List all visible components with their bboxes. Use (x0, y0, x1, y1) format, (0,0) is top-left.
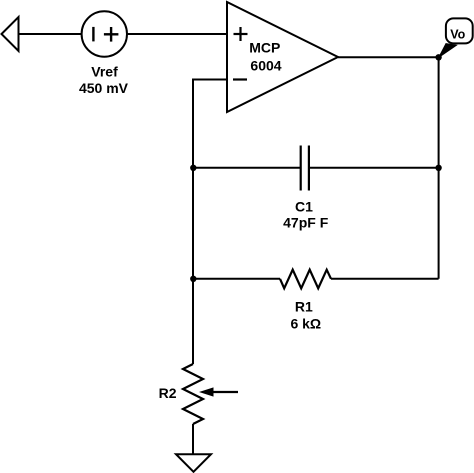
svg-text:MCP: MCP (249, 40, 280, 56)
minus input marker (233, 78, 247, 80)
input port arrow (2, 17, 19, 51)
resistor R1 zigzag (280, 270, 331, 289)
wire capacitor row left (193, 167, 300, 169)
right rail wire (438, 57, 440, 278)
potentiometer R2 zigzag (183, 364, 203, 424)
svg-text:R2: R2 (159, 385, 177, 401)
wire R1 row right (331, 278, 439, 280)
node Vo flag (439, 44, 457, 58)
plus input marker (234, 33, 248, 35)
junction dot output node (435, 54, 441, 60)
wire op-amp output (338, 56, 439, 58)
R2 wiper arrow (212, 391, 238, 393)
svg-text:6004: 6004 (250, 57, 281, 73)
svg-text:C1: C1 (295, 199, 313, 215)
junction dot left R1 (190, 276, 196, 282)
wire R1 row left (193, 278, 280, 280)
ground (176, 454, 211, 472)
junction dot right cap (435, 165, 441, 171)
svg-text:Vref: Vref (91, 64, 118, 80)
voltage source Vref (82, 11, 127, 56)
plus terminal (104, 33, 119, 35)
minus terminal bar (92, 27, 94, 42)
junction dot left cap (190, 165, 196, 171)
svg-text:47pF F: 47pF F (283, 214, 329, 230)
wire - input to left rail (193, 80, 227, 365)
wire Vref to op-amp + input (127, 33, 227, 35)
wire capacitor row right (310, 167, 439, 169)
svg-text:Vo: Vo (450, 27, 465, 41)
capacitor C1 plates (300, 146, 302, 191)
wire arrow to Vref (19, 33, 82, 35)
svg-text:6 kΩ: 6 kΩ (290, 315, 321, 331)
wire R2 to ground (192, 424, 194, 454)
svg-text:450 mV: 450 mV (79, 80, 129, 96)
svg-text:R1: R1 (295, 299, 313, 315)
op-amp U1 MCP6004 (227, 2, 338, 112)
